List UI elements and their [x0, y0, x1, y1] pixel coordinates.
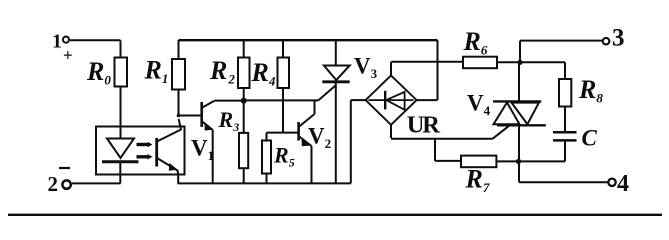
svg-text:V1: V1 [191, 136, 214, 164]
svg-text:R8: R8 [578, 75, 603, 106]
svg-text:R7: R7 [465, 165, 490, 196]
svg-text:R3: R3 [218, 107, 240, 134]
svg-text:R4: R4 [251, 58, 276, 89]
svg-text:R0: R0 [86, 57, 111, 88]
svg-text:R6: R6 [463, 27, 488, 58]
svg-text:1: 1 [52, 31, 62, 53]
svg-text:R2: R2 [209, 56, 235, 87]
svg-text:V3: V3 [354, 54, 378, 82]
svg-text:+: + [63, 46, 73, 65]
svg-text:V2: V2 [308, 124, 331, 152]
svg-text:3: 3 [612, 25, 625, 52]
svg-text:4: 4 [617, 171, 629, 197]
svg-text:R1: R1 [144, 56, 169, 87]
svg-text:UR: UR [407, 112, 440, 139]
svg-text:R5: R5 [273, 143, 295, 170]
svg-text:C: C [582, 126, 598, 151]
svg-text:V4: V4 [467, 91, 491, 119]
svg-text:2: 2 [48, 172, 59, 196]
